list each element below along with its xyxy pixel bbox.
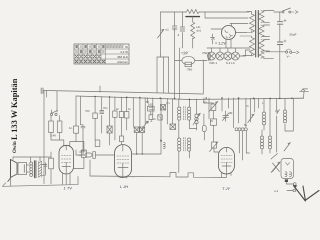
electrolytic C1 [277, 20, 286, 25]
resistor zigzag x192.7 [191, 17, 195, 48]
wire drop x254.7 [254, 98, 256, 112]
misc small labels scattered [85, 100, 264, 127]
svg-text:1 TV: 1 TV [64, 186, 73, 191]
earth arrow [294, 186, 320, 202]
wire drop x148 [147, 98, 149, 103]
primary zigzag [250, 14, 255, 32]
dark terminal blob [285, 179, 288, 182]
wire x179.4 [178, 48, 180, 99]
svg-text:1n: 1n [69, 126, 73, 130]
wires below coil [239, 131, 249, 160]
wire x57 drop [56, 91, 58, 112]
resistor mains zigzag [186, 10, 199, 14]
wire drop x152.8 [152, 98, 154, 115]
wire drop x172.5 [172, 99, 174, 125]
band switch table [74, 44, 129, 64]
trimmer X x109.6 [107, 126, 112, 133]
table text [117, 45, 129, 64]
wire bottom rail right + plug [266, 51, 285, 53]
core [256, 11, 259, 58]
svg-text:0,1: 0,1 [166, 101, 170, 105]
tube V2 pins to bus [120, 177, 133, 178]
tube V1 output [59, 145, 74, 184]
stub x100 above bus [99, 86, 101, 92]
svg-text:(m): (m) [197, 29, 202, 33]
wire drop x133.3 [132, 97, 134, 127]
wire drop x114.9 [114, 97, 116, 111]
coil L7 [260, 130, 263, 154]
dial lamps [208, 48, 251, 60]
box left of V3 [212, 142, 217, 148]
wire drop x80.6 [80, 96, 82, 125]
coil L8 [268, 98, 271, 153]
box x114.9 [113, 111, 117, 117]
svg-text:70: 70 [210, 119, 213, 123]
wire drop x250.4 [249, 98, 251, 122]
pot arrow x145 [142, 121, 148, 129]
svg-text:50µF: 50µF [290, 33, 297, 37]
wire lower bus [76, 96, 304, 100]
svg-text:≈ 1,2V: ≈ 1,2V [215, 42, 226, 46]
wire drop x161 [160, 98, 162, 141]
switch S1 [50, 110, 57, 116]
wire drop x276.7 [277, 98, 280, 152]
wire to terminals [286, 182, 293, 191]
coil L3 variable [193, 99, 200, 130]
junction dots on lower bus [94, 96, 293, 101]
box right of tube1 [74, 142, 87, 169]
svg-text:700: 700 [85, 109, 90, 113]
svg-text:Owin: Owin [13, 141, 18, 153]
wire x76 column [75, 96, 77, 124]
variable cap X [271, 162, 280, 172]
svg-text:4,4 W: 4,4 W [120, 50, 128, 54]
capacitor at bus left end [41, 88, 43, 94]
box x126.7 [125, 112, 129, 119]
tube V2 [115, 145, 132, 178]
wire x46.5 drop [46, 91, 48, 97]
table marks [74, 45, 123, 64]
trimmer X x172.5 [170, 124, 176, 129]
wire drop x121.5 [121, 97, 123, 112]
title Owin L 133 W Kapitän [10, 78, 19, 153]
wire drop x126.7 [126, 97, 128, 111]
capacitor x182.4 [180, 27, 185, 31]
svg-text:u 0,1: u 0,1 [181, 51, 188, 55]
svg-text:7n: 7n [246, 104, 249, 108]
IF transformer 2 [178, 138, 191, 173]
trimmer X x133.3 [134, 127, 139, 132]
resistor box x95 [93, 113, 98, 119]
svg-text:2n: 2n [116, 107, 119, 111]
secondary zigzags [259, 11, 264, 23]
svg-text:DW: DW [203, 51, 208, 55]
resistor box R1 [49, 121, 54, 133]
box x213 [208, 98, 210, 119]
svg-text:W: W [125, 45, 128, 49]
cap at rect left [211, 34, 215, 44]
wire top anode feed [13, 156, 51, 158]
wire x157 [156, 57, 158, 93]
speaker magnet [18, 163, 27, 175]
rectifier tube V4 [211, 24, 247, 49]
pot arrow above varcap [271, 154, 278, 160]
trimmer cap 30 [223, 111, 229, 121]
capacitor x174.6 [172, 26, 177, 32]
wire antenna riser [303, 91, 306, 98]
wire drop x258.6 [258, 98, 260, 108]
wire drop x95 [94, 96, 96, 113]
antenna symbol [300, 89, 309, 91]
wire TBO to upper bus [202, 60, 204, 94]
pot with arrow left [158, 29, 164, 38]
wire left column x44 [43, 91, 45, 184]
svg-text:T JY: T JY [222, 186, 231, 191]
svg-text:30: 30 [229, 111, 233, 115]
transformer T1 [240, 11, 274, 59]
resistor oval R37 [76, 152, 114, 159]
capacitor x101.7 [100, 111, 104, 114]
svg-text:u1: u1 [166, 28, 170, 32]
wire bottom bus B [90, 173, 226, 178]
wire drop x145.2 [144, 98, 146, 124]
coil small x236 [235, 128, 238, 131]
box above V2 [95, 140, 100, 147]
svg-text:V30·1: V30·1 [209, 61, 217, 65]
X box x163 [161, 105, 166, 111]
svg-text:70n: 70n [103, 106, 108, 110]
svg-text:1n: 1n [128, 107, 131, 111]
secondary taps [264, 11, 274, 59]
wire x160.5 [160, 55, 162, 57]
wire drop x109.6 [109, 97, 111, 126]
box x158 [158, 115, 162, 120]
wire link y57 [157, 56, 169, 58]
wire drop x233.6 [233, 98, 235, 128]
wire bottom bus A [3, 177, 79, 187]
svg-text:L JH: L JH [120, 184, 128, 189]
wire drop x139.9 [139, 98, 141, 128]
wire top rail [161, 11, 187, 13]
loudspeaker [8, 160, 17, 182]
wire cathode y154 [132, 132, 166, 154]
coil L6 [283, 98, 286, 131]
TBO box [175, 52, 208, 67]
wire top right rail + switch [274, 11, 282, 13]
svg-text:468 kHz: 468 kHz [117, 55, 129, 59]
wire drop x293.3 [285, 98, 293, 131]
svg-text:6·2 L4: 6·2 L4 [226, 61, 235, 65]
wire x174.6 down [174, 48, 176, 99]
wire x163.5 [163, 57, 165, 93]
coil L5 [262, 98, 265, 130]
capacitor C spk [44, 152, 54, 184]
svg-text:V~: V~ [287, 55, 291, 59]
box x152 [149, 115, 153, 120]
wire drop x167.3 [166, 98, 168, 124]
electrolytic C2 [277, 40, 286, 45]
box x148 [148, 106, 155, 111]
wire drop x238.6 [238, 98, 240, 123]
svg-text:0,1: 0,1 [203, 100, 207, 104]
box x121.5 [119, 112, 123, 118]
trimmer X x139.9 [140, 127, 145, 132]
wire x168.5 [168, 57, 170, 93]
pill box x204 [202, 125, 206, 131]
wire left power column [160, 12, 162, 55]
wire drop x101.7 [101, 97, 103, 133]
svg-text:Allstrom: Allstrom [117, 60, 128, 64]
pot arrow x250 [248, 114, 254, 122]
wire drop x245.9 [245, 98, 247, 127]
svg-text:50: 50 [146, 100, 149, 104]
wire x174.6 [174, 12, 176, 48]
thick bar under resistor [186, 16, 199, 18]
output transformer T2 [30, 157, 45, 178]
wire speaker to bus [10, 178, 12, 187]
svg-text:u.1: u.1 [274, 189, 279, 193]
primary top/bottom leads [243, 12, 252, 56]
wire upper bus [44, 91, 203, 95]
capacitor C8 [81, 125, 85, 131]
wire drop x222 [221, 98, 223, 111]
grid stopper box above V2 [120, 136, 124, 142]
tube V3 [219, 147, 235, 177]
bar left of lamps [208, 53, 210, 61]
svg-text:L 133 W Kapitän: L 133 W Kapitän [10, 78, 19, 140]
IF transformer 1 [178, 99, 197, 138]
capacitor box C7 [74, 126, 79, 133]
wire x279.8 column [279, 12, 281, 98]
wire drop x228 [227, 98, 229, 108]
wire x182.4 [181, 12, 183, 48]
svg-text:·780·: ·780· [186, 68, 193, 72]
osc coil box [281, 159, 294, 179]
svg-text:3,4V: 3,4V [50, 134, 56, 138]
pot arrow x287 [284, 143, 290, 151]
svg-text:2n: 2n [153, 117, 156, 121]
wire R1 R2 joins [51, 116, 76, 146]
resistor box R2 [57, 121, 62, 133]
resistor box x206 [204, 98, 218, 119]
heater rail top [207, 47, 250, 49]
